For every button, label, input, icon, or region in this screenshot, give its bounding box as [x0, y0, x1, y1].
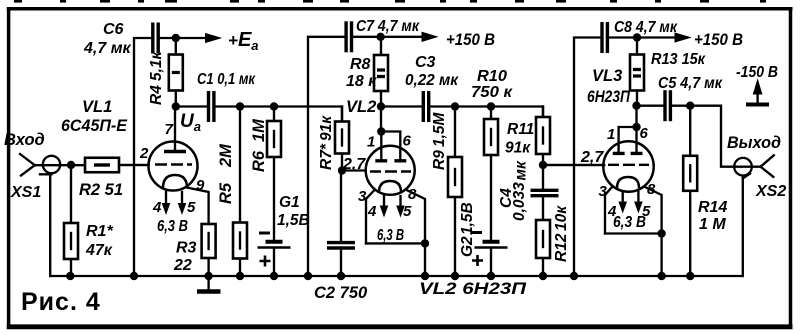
node R5/rail: [236, 272, 244, 280]
svg-text:2М: 2М: [217, 143, 235, 168]
svg-text:XS1: XS1: [10, 184, 41, 201]
VL1 heater pin 5 arrow: [178, 192, 185, 214]
resistor R1: [64, 165, 78, 276]
VL3 grid (pins 2,7): [543, 164, 649, 167]
svg-text:R4: R4: [148, 85, 165, 105]
node R11 top: [487, 102, 495, 110]
svg-text:9: 9: [196, 177, 205, 194]
svg-text:10к: 10к: [553, 205, 570, 231]
label Выход: [727, 134, 781, 152]
label C3: [415, 54, 436, 71]
label VL2: [346, 98, 376, 116]
label R14 1М: [698, 199, 727, 233]
label VL3 pin 5: [642, 203, 651, 220]
svg-text:VL2: VL2: [346, 98, 376, 116]
node VL2 anode split: [377, 127, 385, 135]
svg-text:G2: G2: [459, 236, 476, 257]
VL2 grid (pins 2,7): [342, 171, 411, 172]
tube VL1 envelope: [149, 142, 198, 191]
node VL3 anode split: [632, 123, 640, 131]
label 6,3В heater VL3: [613, 214, 646, 231]
node VL2 grid / C2: [338, 166, 346, 174]
node VL3 grid junction: [539, 161, 547, 169]
label VL3 pin 6: [640, 125, 649, 142]
wire C4 to R12: [542, 196, 544, 220]
svg-text:R1*: R1*: [86, 223, 113, 240]
resistor R13: [630, 38, 644, 106]
label R13 15к: [651, 51, 706, 68]
tube VL2 envelope: [366, 146, 415, 195]
svg-text:0,22 мк: 0,22 мк: [405, 72, 459, 89]
capacitor C2 wire: [340, 171, 342, 241]
capacitor C6 ground wire: [134, 38, 153, 276]
svg-text:91к: 91к: [505, 140, 531, 157]
svg-text:VL2 6Н23П: VL2 6Н23П: [419, 280, 527, 298]
label 6,3В heater VL1: [157, 218, 188, 235]
VL1 cathode lead (pin 9): [187, 188, 209, 224]
label R4 5,1к: [148, 50, 165, 105]
VL3 cathode bottom wire: [605, 232, 662, 234]
svg-text:Вход: Вход: [4, 131, 45, 149]
node VL3 cathode/rail: [657, 272, 665, 280]
label Ua: [180, 111, 201, 134]
svg-text:1,5В: 1,5В: [277, 212, 310, 229]
svg-text:R3: R3: [176, 240, 197, 257]
node R9/rail: [451, 272, 459, 280]
label VL2 pin 5: [403, 203, 412, 220]
VL2 cathode: [379, 181, 401, 192]
resistor R9: [448, 107, 462, 277]
svg-text:6Н23П: 6Н23П: [587, 88, 631, 106]
svg-text:91к: 91к: [318, 115, 335, 141]
svg-text:1,5В: 1,5В: [459, 202, 476, 235]
svg-text:18 к: 18 к: [346, 73, 377, 90]
svg-text:1: 1: [607, 126, 615, 143]
svg-text:8: 8: [647, 181, 656, 198]
ground symbol: [197, 276, 221, 292]
svg-text:R6: R6: [250, 150, 268, 172]
label C6 value 4,7 мк: [83, 40, 132, 57]
node VL2 anode: [377, 102, 385, 110]
wire node B continued: [431, 107, 543, 118]
label XS2: [755, 183, 786, 200]
svg-text:4,7 мк: 4,7 мк: [83, 40, 132, 57]
VL3 anode feed wire: [635, 106, 637, 127]
capacitor C2: [327, 243, 355, 248]
caption Рис. 4: [21, 288, 101, 316]
node C6/rail: [130, 272, 138, 280]
svg-text:R12: R12: [553, 233, 570, 262]
label VL2 pin 6: [403, 133, 412, 150]
svg-text:С3: С3: [415, 54, 436, 71]
label pin 4: [152, 199, 162, 216]
wire C5 to output: [670, 105, 690, 107]
label pin 7: [165, 121, 174, 138]
resistor R2: [84, 158, 149, 173]
svg-text:С5 4,7 мк: С5 4,7 мк: [658, 75, 723, 92]
label R12 10к: [553, 205, 570, 262]
label G1 1,5В: [277, 194, 310, 229]
node R5 top: [236, 102, 244, 110]
VL2 heater pin 5 arrow: [397, 196, 404, 216]
wire C2 to rail: [340, 248, 342, 276]
node R6 top: [270, 102, 278, 110]
svg-text:R14: R14: [698, 199, 727, 216]
svg-text:4: 4: [367, 203, 377, 220]
label R9 1,5М: [431, 111, 448, 170]
svg-text:1М: 1М: [250, 118, 268, 142]
VL2 cathode pin 8 lead: [408, 191, 426, 244]
wire +Ea feed: [158, 37, 176, 39]
resistor R12: [536, 220, 550, 276]
VL1 cathode: [163, 175, 187, 188]
resistor R8: [374, 37, 388, 107]
label VL2 pin 8: [408, 186, 417, 203]
label R5 2М: [217, 143, 235, 204]
VL2 cathode pin 3 lead: [366, 191, 374, 244]
label C8 4,7мк: [614, 19, 678, 36]
power +150V arrow 1: [381, 32, 437, 41]
label R10 750к: [471, 68, 513, 101]
svg-text:6: 6: [640, 125, 649, 142]
VL1 grid (pin 2): [119, 163, 192, 166]
label C5 4,7мк: [658, 75, 723, 92]
VL2 anode feed wire: [380, 107, 382, 132]
svg-text:Рис. 4: Рис. 4: [21, 288, 101, 316]
label Вход: [4, 131, 45, 149]
battery G2: [475, 242, 508, 276]
label VL1: [82, 98, 112, 116]
svg-text:6,3 В: 6,3 В: [377, 227, 404, 244]
wire +150V feed 1: [352, 36, 381, 38]
VL3 anodes (pins 1,6): [613, 127, 643, 153]
svg-text:7: 7: [165, 121, 174, 138]
node C7/rail: [304, 272, 312, 280]
svg-text:Выход: Выход: [727, 134, 781, 152]
svg-text:С7 4,7 мк: С7 4,7 мк: [356, 18, 420, 35]
svg-text:R10: R10: [477, 68, 507, 85]
svg-text:R11: R11: [507, 121, 534, 138]
wire node B: [381, 105, 421, 107]
resistor R7: [335, 107, 349, 171]
power +150V arrow 2: [637, 33, 690, 42]
svg-text:R9: R9: [431, 150, 448, 170]
label VL1 type 6С45П-Е: [61, 117, 128, 135]
svg-text:3: 3: [358, 188, 367, 205]
svg-text:1,5М: 1,5М: [431, 111, 448, 147]
battery G1: [258, 242, 291, 276]
resistor R6: [267, 107, 281, 241]
wire +150V feed 2: [608, 36, 638, 38]
node R12/rail: [539, 272, 547, 280]
label R11 91к: [505, 121, 534, 157]
label +Ea: [228, 29, 259, 53]
capacitor C3: [423, 91, 428, 122]
label 2,7 (VL2 grids): [342, 156, 366, 173]
node C7/R8 (+150V): [376, 33, 384, 41]
label +150 В (1): [446, 31, 495, 49]
label VL3 pin 8: [647, 181, 656, 198]
wire anode node A: [176, 105, 206, 107]
label R2 51: [79, 181, 123, 199]
capacitor C8 ground wire: [574, 38, 601, 277]
wire C5 feed: [637, 105, 664, 107]
svg-text:R2 51: R2 51: [79, 181, 123, 199]
VL2 anodes (pins 1,6): [375, 132, 406, 161]
VL3 cathode: [617, 177, 639, 188]
svg-text:3: 3: [599, 183, 608, 200]
label VL2 pin 4: [367, 203, 377, 220]
label C6: [103, 21, 124, 38]
svg-text:6С45П-Е: 6С45П-Е: [61, 117, 128, 135]
label VL3 pin 4: [607, 203, 617, 220]
label VL3: [592, 67, 622, 85]
label VL2 pin 1: [367, 134, 375, 151]
svg-text:8: 8: [408, 186, 417, 203]
label VL2 6Н23П: [419, 280, 527, 298]
label C1 0,1 мк: [197, 71, 256, 88]
svg-text:6,3 В: 6,3 В: [613, 214, 646, 231]
node R14/rail: [686, 272, 694, 280]
wire to XS2: [690, 106, 760, 167]
node C8/R13 (+150V): [633, 33, 641, 41]
svg-text:С2 750: С2 750: [314, 284, 368, 302]
connector XS2 (output socket): [734, 155, 774, 276]
svg-text:XS2: XS2: [755, 183, 786, 200]
node VL2 cathode/rail: [421, 272, 429, 280]
label R1* 47к: [85, 223, 113, 259]
svg-text:5: 5: [403, 203, 412, 220]
svg-text:6,3 В: 6,3 В: [157, 218, 188, 235]
label VL3 pin 3: [599, 183, 608, 200]
svg-text:R13 15к: R13 15к: [651, 51, 706, 68]
VL3 heater pin 5 arrow: [635, 192, 642, 212]
svg-text:2,7: 2,7: [580, 149, 604, 166]
svg-text:R7*: R7*: [318, 143, 335, 170]
label G1 plus: [260, 256, 271, 267]
node C2/rail: [337, 272, 345, 280]
svg-text:+150 В: +150 В: [694, 31, 743, 49]
svg-text:22: 22: [173, 257, 192, 274]
label G2 minus: [472, 231, 482, 234]
wire VL2 cathode to rail: [424, 243, 426, 276]
label pin 5: [187, 199, 196, 216]
label +150 В (2): [694, 31, 743, 49]
label C3 value 0,22 мк: [405, 72, 459, 89]
power +Ea arrow: [176, 34, 221, 43]
node C8/rail: [570, 272, 578, 280]
node VL3 anode: [632, 102, 640, 110]
capacitor C8: [602, 22, 607, 53]
label 2,7 (VL3 grids): [580, 149, 604, 166]
node G2/rail: [487, 272, 495, 280]
label 6,3В heater VL2: [377, 227, 404, 244]
svg-text:VL1: VL1: [82, 98, 112, 116]
label -150В: [736, 64, 778, 81]
capacitor C7 ground wire: [308, 37, 346, 276]
svg-text:47к: 47к: [85, 242, 113, 259]
label R7* 91к: [318, 115, 335, 170]
resistor R11: [484, 107, 498, 241]
svg-text:R5: R5: [217, 182, 235, 204]
wire VL3 cathode to rail: [660, 234, 662, 277]
node R3/rail: [204, 272, 212, 280]
label C7 4,7 мк: [356, 18, 420, 35]
node C5/R14: [686, 102, 694, 110]
node C6/R4 (+Ea): [172, 34, 180, 42]
node VL1 anode / C1 (Ua): [172, 102, 180, 110]
label VL2 pin 3: [358, 188, 367, 205]
svg-text:0,033: 0,033: [511, 182, 528, 221]
VL2 cathode bottom wire: [366, 242, 425, 244]
capacitor C4 wire: [542, 165, 544, 188]
wire VL3 grid: [543, 164, 604, 166]
node input (junction XS1/R1/R2): [67, 161, 75, 169]
node R1/rail: [66, 272, 74, 280]
resistor R10: [536, 107, 550, 166]
capacitor C1: [209, 91, 214, 122]
resistor R5: [233, 107, 247, 277]
label R8 18к: [346, 56, 377, 90]
svg-text:+150 В: +150 В: [446, 31, 495, 49]
svg-text:2: 2: [139, 145, 149, 162]
svg-text:мк: мк: [513, 160, 530, 180]
svg-text:С1 0,1 мк: С1 0,1 мк: [197, 71, 256, 88]
node G1/rail: [270, 272, 278, 280]
VL2 heater pin 4 arrow: [380, 196, 387, 216]
label pin 9: [196, 177, 205, 194]
node VL2 cathode/ground: [421, 239, 429, 247]
label R6 1М: [250, 118, 268, 172]
svg-text:6: 6: [403, 133, 412, 150]
svg-text:R8: R8: [350, 56, 371, 73]
resistor R14: [683, 106, 697, 276]
label C2 750: [314, 284, 368, 302]
svg-text:-150 В: -150 В: [736, 64, 778, 81]
label G2 1,5В: [459, 202, 476, 257]
node R9 top: [451, 102, 459, 110]
label C4 0,033мк: [498, 160, 530, 221]
svg-text:С6: С6: [103, 21, 124, 38]
wire XS1 to R2: [35, 164, 85, 166]
VL1 heater pin 4 arrow: [162, 192, 169, 214]
power -150V symbol: [746, 80, 769, 105]
capacitor C7: [346, 21, 351, 52]
VL3 cathode pin 3 lead: [605, 187, 612, 234]
connector XS1 (input socket): [20, 154, 60, 276]
wire common rail (ground bus): [50, 275, 743, 277]
label VL3 pin 1: [607, 126, 615, 143]
svg-text:G1: G1: [279, 194, 300, 211]
svg-text:VL3: VL3: [592, 67, 622, 85]
svg-text:5,1к: 5,1к: [148, 50, 165, 81]
label G2 plus: [472, 255, 483, 266]
svg-text:5: 5: [187, 199, 196, 216]
VL1 anode (pin 7): [164, 107, 186, 152]
capacitor C6: [153, 23, 158, 54]
svg-text:С8 4,7 мк: С8 4,7 мк: [614, 19, 678, 36]
tube VL3 envelope: [603, 141, 653, 191]
label pin 2: [139, 145, 149, 162]
label R3 22: [173, 240, 197, 275]
svg-text:1 М: 1 М: [699, 216, 726, 233]
svg-text:4: 4: [152, 199, 162, 216]
resistor R3: [202, 223, 216, 276]
VL3 cathode pin 8 lead: [645, 187, 662, 234]
VL3 heater pin 4 arrow: [619, 192, 626, 212]
node VL3 cathode/ground: [657, 229, 665, 237]
label VL3 type 6Н23П: [587, 88, 631, 106]
resistor R4: [169, 38, 183, 107]
wire node A continued: [217, 107, 343, 122]
svg-text:1: 1: [367, 134, 375, 151]
label G1 minus: [259, 232, 270, 235]
label XS1: [10, 184, 41, 201]
capacitor C4: [531, 190, 559, 195]
capacitor C5: [665, 90, 670, 121]
svg-text:750 к: 750 к: [471, 84, 513, 101]
